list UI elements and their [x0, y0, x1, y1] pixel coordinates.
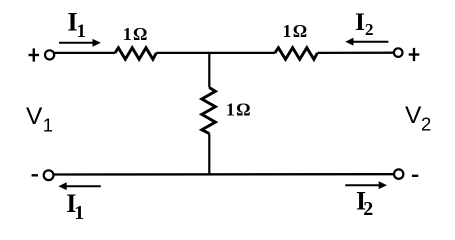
current arrow I2 top	[345, 38, 388, 46]
terminal bottom-right	[394, 169, 403, 178]
resistor R3 1ohm vertical	[202, 88, 216, 134]
minus sign bottom-right	[412, 175, 418, 177]
minus sign bottom-left	[32, 174, 38, 176]
svg-text:I: I	[355, 7, 365, 36]
wire junction to vertical resistor	[208, 53, 210, 88]
plus sign top-right	[409, 48, 420, 61]
resistor R2 1ohm top-right	[275, 48, 318, 60]
svg-text:2: 2	[421, 114, 431, 135]
svg-text:2: 2	[365, 20, 374, 39]
svg-text:1Ω: 1Ω	[123, 24, 149, 44]
current arrow I1 top	[59, 39, 101, 47]
svg-text:1Ω: 1Ω	[226, 100, 252, 120]
terminal top-left	[45, 50, 54, 59]
svg-text:2: 2	[363, 198, 373, 220]
wire vertical bottom segment	[208, 134, 210, 175]
terminal bottom-left	[44, 170, 54, 180]
wire top-left segment	[55, 52, 116, 54]
wire bottom	[54, 173, 394, 176]
svg-text:1: 1	[77, 21, 87, 42]
terminal top-right	[394, 48, 403, 57]
current arrow I2 bottom	[345, 181, 387, 189]
current arrow I1 bottom	[58, 182, 100, 190]
wire top-right segment	[317, 52, 394, 55]
wire top-middle segment	[156, 52, 275, 54]
plus sign top-left	[29, 48, 40, 61]
svg-text:1: 1	[74, 202, 84, 224]
resistor R1 1ohm top-left	[115, 48, 156, 60]
svg-text:V: V	[26, 103, 43, 130]
svg-text:1: 1	[43, 115, 53, 136]
svg-text:1Ω: 1Ω	[283, 21, 309, 41]
svg-text:V: V	[405, 102, 422, 129]
